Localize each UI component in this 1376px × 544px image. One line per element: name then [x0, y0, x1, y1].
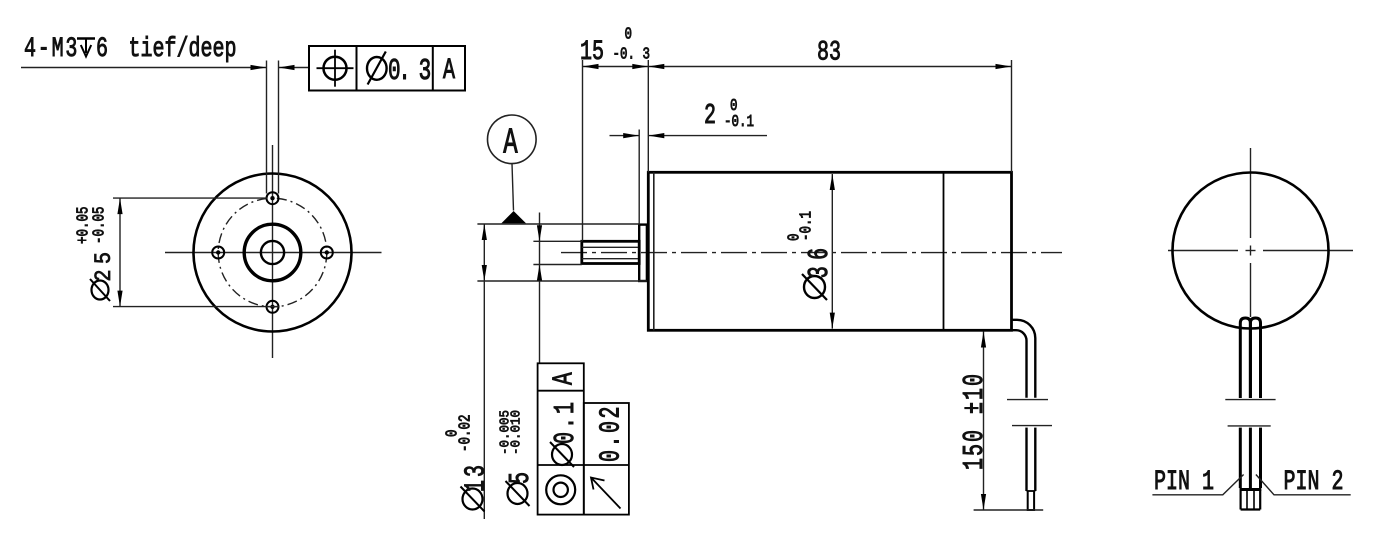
svg-text:-0.010: -0.010 — [508, 410, 524, 455]
front face inner line — [653, 172, 655, 330]
svg-text:83: 83 — [817, 38, 841, 69]
datum triangle — [501, 211, 526, 223]
svg-text:A: A — [503, 124, 518, 164]
position symbol — [324, 57, 347, 80]
svg-text:150 ±10: 150 ±10 — [959, 372, 992, 470]
svg-text:25: 25 — [92, 246, 118, 299]
crimp bar — [1240, 488, 1262, 491]
dimension 15 line — [583, 66, 649, 68]
rear view vertical center line — [1250, 148, 1252, 238]
shaft rectangle — [582, 241, 639, 263]
svg-text:-0.05: -0.05 — [91, 207, 109, 244]
svg-text:PIN 1: PIN 1 — [1154, 467, 1214, 498]
front view horizontal center line — [165, 252, 382, 254]
rear view circle — [1173, 173, 1329, 329]
svg-text:0.1: 0.1 — [550, 399, 583, 459]
dimension O25: extension lines — [113, 197, 267, 199]
wire tubes lower — [1239, 428, 1242, 488]
extension line body rear (x=1011.5) — [1011, 60, 1013, 172]
O13 dimension line — [483, 224, 485, 519]
svg-text:A: A — [549, 372, 581, 385]
extension line body front (x=648.3) — [647, 60, 649, 172]
depth symbol — [77, 37, 95, 39]
M3 leader arrow (points right) — [251, 65, 267, 70]
dimension 83 line — [648, 66, 1011, 68]
dimension 150 line — [983, 332, 985, 511]
text O0.1 rotated — [552, 444, 572, 465]
text O25 rotated — [92, 281, 109, 300]
wire break ticks — [1007, 399, 1048, 401]
datum A balloon — [488, 115, 537, 164]
wire outlet curve (side view) — [1012, 320, 1036, 398]
bolt circle (dash-dot) — [218, 198, 327, 307]
svg-text:0. 3: 0. 3 — [388, 53, 431, 88]
text O13 rotated — [463, 489, 483, 510]
front view vertical center line — [272, 145, 274, 358]
datum leader — [512, 164, 514, 211]
wire lower segment — [1025, 428, 1027, 491]
wire break ticks — [1225, 399, 1275, 401]
O5 leader line — [539, 213, 541, 364]
svg-text:15: 15 — [580, 37, 604, 68]
svg-text:2: 2 — [704, 100, 716, 133]
M3 callout extension line left — [266, 61, 268, 194]
motor body outline — [648, 172, 1011, 330]
mounting hole bottom — [267, 301, 279, 313]
svg-text:-0.1: -0.1 — [724, 114, 754, 132]
svg-text:5: 5 — [505, 464, 538, 504]
wire tubes upper — [1240, 318, 1250, 398]
PIN 1 leader — [1152, 475, 1243, 495]
svg-text:6: 6 — [96, 34, 108, 65]
step flange rectangle — [639, 225, 647, 281]
dimension O25 line — [119, 198, 121, 307]
svg-text:PIN 2: PIN 2 — [1284, 467, 1344, 498]
svg-text:0.02: 0.02 — [595, 404, 628, 462]
feature control frame (position) box — [309, 46, 465, 91]
end cap divider — [943, 172, 945, 330]
boss circle (thick) — [244, 224, 301, 281]
svg-text:-0.02: -0.02 — [457, 415, 475, 452]
FCF runout box (rotated) — [584, 403, 629, 515]
center line of side view — [561, 252, 1062, 254]
M3 leader line — [21, 67, 267, 69]
extension line step left (x=639.2) — [638, 130, 640, 225]
svg-text:tief/deep: tief/deep — [129, 34, 237, 65]
mounting hole top — [267, 192, 279, 204]
text O36 rotated — [804, 276, 825, 298]
shaft hole circle — [261, 241, 284, 264]
text O5 rotated — [508, 483, 528, 504]
rear view horizontal center line — [1168, 250, 1238, 252]
extension line at wire end — [974, 509, 1044, 511]
PIN 2 leader — [1256, 475, 1351, 495]
M3 callout extension line right — [278, 61, 280, 194]
shaft thread lines — [582, 246, 639, 248]
right arrow (points left) — [279, 67, 310, 69]
wire tip — [1027, 490, 1036, 492]
svg-text:36: 36 — [804, 242, 837, 297]
O5 extension stubs — [533, 240, 581, 242]
svg-text:A: A — [443, 53, 456, 87]
text O0.3 — [367, 57, 387, 80]
O13 extension lines — [477, 223, 639, 225]
tip box — [1239, 490, 1241, 510]
concentricity symbol — [546, 475, 575, 504]
svg-text:0: 0 — [625, 26, 633, 44]
FCF concentricity box (rotated) — [538, 363, 584, 514]
extension line shaft end (x=582.5) — [582, 60, 584, 241]
svg-text:-0.1: -0.1 — [798, 211, 816, 241]
runout arrow symbol — [591, 478, 621, 509]
svg-text:4-M3: 4-M3 — [24, 34, 79, 65]
svg-text:-0. 3: -0. 3 — [613, 46, 650, 64]
O36 dimension line — [831, 174, 833, 329]
svg-text:13: 13 — [460, 462, 493, 507]
mounting hole left — [212, 247, 224, 259]
mounting hole right — [321, 247, 333, 259]
front view outer circle (motor flange) — [194, 174, 352, 332]
dimension 2 lines — [610, 135, 640, 137]
